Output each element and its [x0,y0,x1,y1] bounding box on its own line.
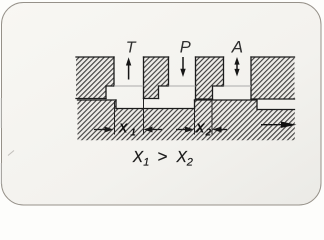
spool groove bottom [116,108,195,110]
svg-text:X: X [118,121,129,136]
body block B2 (between T and P) [144,57,169,99]
svg-text:P: P [180,39,191,57]
land 2 left edge [194,100,196,109]
land 2 top [195,99,258,101]
caption: X1 > X2 [132,147,193,168]
block top edges [76,56,295,58]
X1 arrow right (points left) [144,127,163,133]
A port double arrow (up/down) [234,57,239,77]
X1 arrow left (points right) [94,127,114,133]
svg-text:X: X [176,149,188,166]
X2 arrow right (points left) [213,127,228,133]
X2 arrow left (points right) [176,127,194,133]
svg-text:2: 2 [205,128,212,139]
T port arrow (up) [126,57,131,79]
land 1 right edge [115,100,117,109]
svg-text:A: A [231,38,243,57]
svg-text:T: T [126,40,137,57]
land 1 top [78,99,117,101]
port slot walls [114,57,251,99]
extension line right (body edge) [143,99,145,135]
svg-text:>: > [158,147,168,166]
groove notch step edges [106,86,213,99]
body block B3 (between P and A) [196,57,224,99]
groove notch top edges [106,85,224,87]
body outlines [76,57,295,99]
spool motion arrow (big, right) [261,122,297,128]
svg-text:X: X [195,121,206,136]
bore lines (block bottoms) [76,98,295,101]
svg-text:2: 2 [186,156,193,168]
body block B1 (left of T port) [76,57,114,99]
body block B4 (right of A port) [251,57,295,99]
P port arrow (down) [180,57,185,77]
svg-text:1: 1 [143,156,149,168]
svg-text:1: 1 [130,128,136,139]
page-edge scan marks [1,98,14,184]
extension line left (spool land edge) [114,101,116,135]
spool outlines [78,100,295,110]
right groove box [257,100,295,110]
faint groove lines across slots [114,85,251,87]
svg-text:X: X [132,149,144,166]
